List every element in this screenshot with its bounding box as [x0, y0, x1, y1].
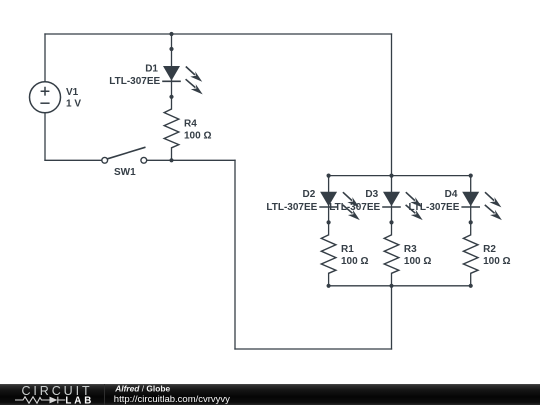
LED D4 [461, 192, 502, 220]
svg-text:D2: D2 [303, 189, 316, 200]
node junction dots [169, 32, 472, 288]
node: D4 cathode / R2 top [469, 220, 473, 224]
node: D1 cathode / R4 top [169, 95, 173, 99]
svg-text:LTL-307EE: LTL-307EE [408, 202, 459, 213]
svg-text:R2: R2 [483, 244, 496, 255]
node: block top rail / D2 [327, 174, 331, 178]
wire bottom left to SW1 [45, 159, 102, 161]
LED D2 [319, 192, 360, 220]
svg-text:100 Ω: 100 Ω [483, 256, 510, 267]
wire parallel block bottom rail [329, 285, 471, 287]
resistor R4 [164, 109, 179, 148]
node: block top rail / D3 riser [389, 174, 393, 178]
resistor R1 [321, 235, 336, 273]
svg-text:LTL-307EE: LTL-307EE [266, 202, 317, 213]
svg-text:100 Ω: 100 Ω [404, 256, 431, 267]
svg-text:R4: R4 [184, 119, 197, 130]
wire main riser x=391.5 top rail down to bottom run [391, 34, 393, 349]
footer logo resistor-diode squiggle [15, 397, 65, 404]
svg-text:100 Ω: 100 Ω [341, 256, 368, 267]
svg-text:1 V: 1 V [66, 98, 81, 109]
wire left rail lower (V1 minus terminal to bottom) [44, 113, 46, 161]
voltage source V1 [30, 82, 61, 113]
footer divider [104, 384, 106, 405]
node: bottom rail / R3 riser [389, 284, 393, 288]
wire bottom run [235, 348, 392, 350]
wire D1 branch upper [171, 34, 173, 109]
node: D1 anode terminal [169, 47, 173, 51]
node: D2 cathode / R1 top [327, 220, 331, 224]
node: bottom rail / R2 [469, 284, 473, 288]
wire left rail upper (top rail to V1 plus terminal) [44, 34, 46, 82]
node: R4 bottom / switch wire junction [169, 158, 173, 162]
LED D3 [382, 192, 423, 220]
svg-text:100 Ω: 100 Ω [184, 131, 211, 142]
wire drop from switch row down [234, 160, 236, 349]
switch SW1 [102, 147, 147, 163]
svg-text:LTL-307EE: LTL-307EE [329, 202, 380, 213]
svg-text:LAB: LAB [65, 395, 94, 405]
node: block top rail / D4 [469, 174, 473, 178]
svg-text:R3: R3 [404, 244, 417, 255]
svg-text:R1: R1 [341, 244, 354, 255]
node: bottom rail / R1 [327, 284, 331, 288]
svg-text:V1: V1 [66, 87, 79, 98]
resistor R3 [384, 235, 399, 273]
footer bar [0, 384, 540, 405]
node: top rail / D1 branch [169, 32, 173, 36]
wire parallel block top rail [329, 175, 471, 177]
wire branch3 (D4/R2) [470, 176, 472, 286]
wire D1 branch lower below R4 [171, 148, 173, 161]
resistor R2 [463, 235, 478, 273]
svg-text:D3: D3 [365, 189, 378, 200]
svg-text:D4: D4 [445, 189, 458, 200]
wire branch1 (D2/R1) [328, 176, 330, 286]
svg-text:http://circuitlab.com/cvrvyvy: http://circuitlab.com/cvrvyvy [114, 394, 230, 405]
svg-text:SW1: SW1 [114, 167, 136, 178]
wire SW1 to junction and to drop corner [147, 159, 235, 161]
node: D3 cathode / R3 top [389, 220, 393, 224]
svg-text:LTL-307EE: LTL-307EE [109, 76, 160, 87]
svg-text:D1: D1 [145, 63, 158, 74]
LED D1 [162, 66, 203, 94]
wire top rail [45, 33, 392, 35]
svg-text:Alfred / Globe: Alfred / Globe [114, 383, 170, 393]
